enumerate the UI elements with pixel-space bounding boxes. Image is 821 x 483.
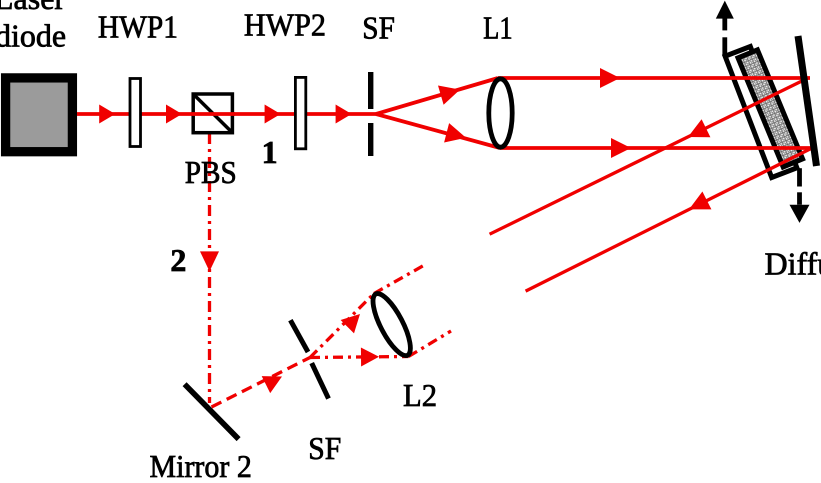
svg-text:L1: L1 bbox=[483, 10, 512, 46]
svg-text:Mirror 2: Mirror 2 bbox=[150, 448, 252, 483]
svg-text:PBS: PBS bbox=[185, 154, 237, 190]
svg-text:1: 1 bbox=[262, 134, 278, 170]
svg-text:HWP1: HWP1 bbox=[98, 8, 178, 44]
svg-text:Diffuser: Diffuser bbox=[765, 246, 821, 282]
svg-text:SF: SF bbox=[308, 430, 341, 466]
svg-text:L2: L2 bbox=[403, 377, 437, 413]
svg-text:diode: diode bbox=[0, 18, 66, 54]
svg-text:Laser: Laser bbox=[0, 0, 65, 16]
svg-text:HWP2: HWP2 bbox=[244, 7, 326, 43]
svg-text:SF: SF bbox=[362, 10, 395, 46]
svg-text:2: 2 bbox=[170, 242, 186, 278]
